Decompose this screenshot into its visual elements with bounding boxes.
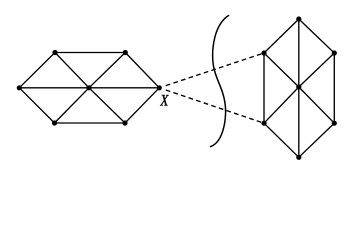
wire edge C2-LL2	[264, 87, 299, 123]
label X	[160, 95, 169, 106]
wire edge LR2-B2	[299, 123, 335, 157]
wire edge LL2-B2	[264, 123, 299, 157]
wire edge C-X	[89, 87, 159, 89]
wire edge T2-C2	[298, 19, 300, 87]
wire edge BL-L	[19, 88, 54, 123]
node C2 (right center)	[296, 84, 301, 89]
wire edge C-TL	[55, 53, 89, 88]
node L (left)	[17, 85, 22, 90]
dashed wire X to LL2	[166, 90, 264, 123]
wire edge BR-BL	[55, 122, 126, 124]
wire edge L-C	[19, 87, 89, 89]
node TR	[123, 50, 128, 55]
wire edge C2-UR2	[299, 53, 335, 87]
node UR2	[332, 50, 337, 55]
node B2 (right bottom)	[296, 155, 301, 160]
wire edge C-TR	[89, 53, 125, 88]
wire edge TL-TR	[55, 52, 125, 54]
node UL2	[261, 50, 266, 55]
separation curve	[211, 16, 229, 147]
wire edge X-BR	[125, 88, 159, 123]
wire edge UL2-LL2	[263, 53, 265, 123]
node BR	[122, 120, 127, 125]
dashed wire X to UL2	[166, 53, 264, 86]
node TL	[52, 50, 57, 55]
node T2 (right top)	[296, 16, 301, 21]
wire edge T2-UL2	[264, 19, 299, 53]
wire edge C-BL	[55, 88, 90, 123]
node LR2	[332, 121, 337, 126]
wire edge UR2-LR2	[333, 53, 335, 123]
node C (left center)	[86, 85, 91, 90]
wire edge C2-LR2	[299, 87, 335, 123]
wire edge TR-X	[125, 53, 159, 88]
node LL2	[261, 121, 266, 126]
node BL	[52, 120, 57, 125]
wire edge C2-UL2	[264, 53, 299, 87]
wire edge L-TL	[19, 53, 55, 88]
wire edge C2-B2	[298, 87, 300, 157]
wire edge C-BR	[89, 88, 125, 123]
wire edge T2-UR2	[299, 19, 335, 53]
node X vertex	[157, 85, 162, 90]
